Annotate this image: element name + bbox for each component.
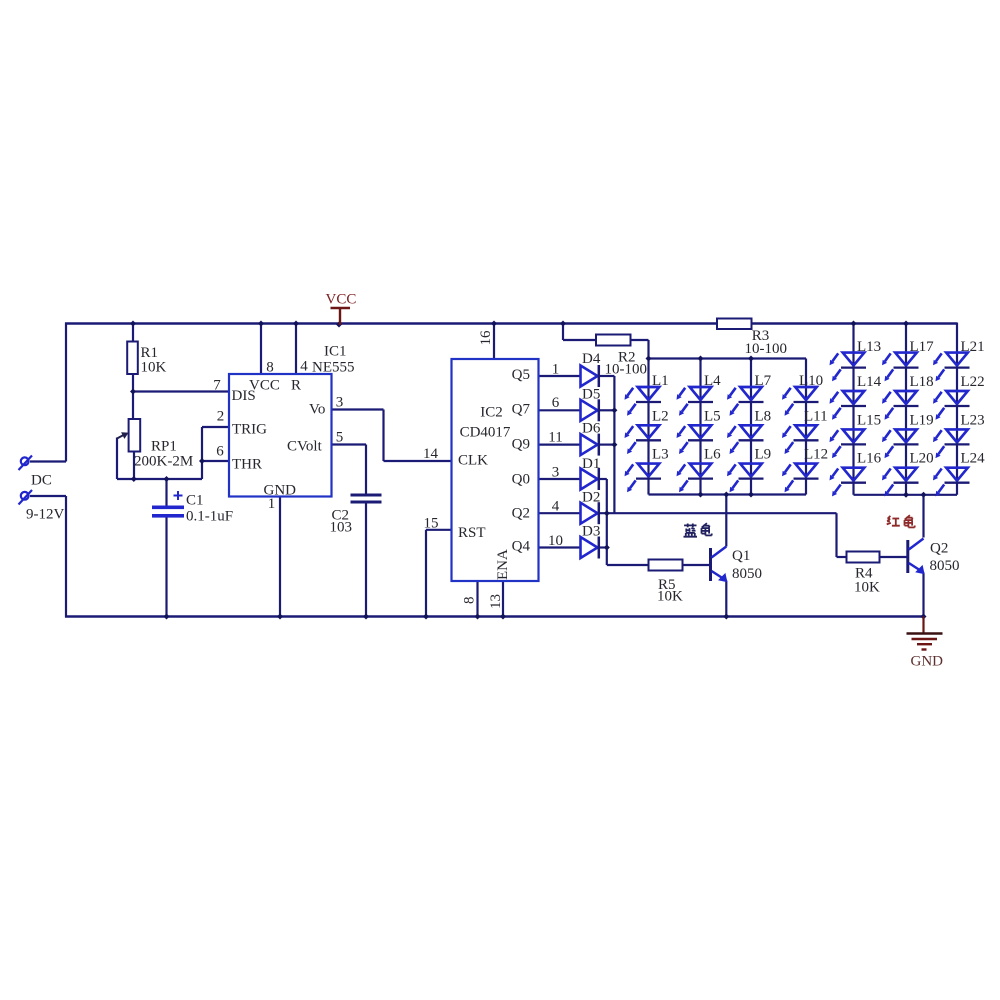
svg-text:L23: L23 bbox=[961, 412, 985, 428]
svg-text:15: 15 bbox=[424, 516, 439, 532]
svg-text:Q9: Q9 bbox=[512, 437, 530, 453]
svg-text:L3: L3 bbox=[652, 447, 669, 463]
svg-text:IC1: IC1 bbox=[324, 344, 347, 360]
svg-text:Q0: Q0 bbox=[512, 472, 530, 488]
svg-text:DIS: DIS bbox=[232, 388, 256, 404]
svg-text:3: 3 bbox=[552, 465, 560, 481]
svg-text:R: R bbox=[291, 378, 301, 394]
svg-text:1: 1 bbox=[268, 496, 276, 512]
svg-text:Q4: Q4 bbox=[512, 539, 531, 555]
svg-text:9-12V: 9-12V bbox=[26, 507, 64, 523]
svg-text:RP1: RP1 bbox=[151, 439, 177, 455]
svg-text:L15: L15 bbox=[857, 412, 881, 428]
svg-text:4: 4 bbox=[300, 359, 308, 375]
svg-text:L20: L20 bbox=[910, 451, 934, 467]
svg-text:D4: D4 bbox=[582, 351, 601, 367]
svg-text:ENA: ENA bbox=[495, 549, 511, 580]
svg-text:10K: 10K bbox=[657, 589, 683, 605]
svg-text:L6: L6 bbox=[704, 447, 721, 463]
svg-text:L8: L8 bbox=[755, 408, 772, 424]
svg-text:7: 7 bbox=[213, 378, 221, 394]
svg-text:L2: L2 bbox=[652, 408, 669, 424]
svg-text:L13: L13 bbox=[857, 339, 881, 355]
svg-text:5: 5 bbox=[336, 430, 344, 446]
svg-text:L7: L7 bbox=[755, 373, 772, 389]
svg-text:3: 3 bbox=[336, 395, 344, 411]
svg-text:Q2: Q2 bbox=[512, 506, 530, 522]
svg-text:D3: D3 bbox=[582, 524, 600, 540]
svg-text:L9: L9 bbox=[755, 447, 772, 463]
svg-text:13: 13 bbox=[488, 594, 504, 609]
svg-text:L10: L10 bbox=[799, 373, 823, 389]
svg-text:L18: L18 bbox=[910, 374, 934, 390]
svg-text:L17: L17 bbox=[910, 339, 935, 355]
svg-text:10K: 10K bbox=[141, 360, 167, 376]
svg-text:2: 2 bbox=[217, 409, 225, 425]
svg-text:6: 6 bbox=[552, 395, 560, 411]
svg-text:16: 16 bbox=[478, 330, 494, 346]
svg-text:L24: L24 bbox=[961, 451, 986, 467]
svg-text:8: 8 bbox=[266, 360, 274, 376]
svg-text:L1: L1 bbox=[652, 373, 669, 389]
svg-text:0.1-1uF: 0.1-1uF bbox=[186, 509, 233, 525]
svg-text:CLK: CLK bbox=[458, 453, 488, 469]
svg-text:L21: L21 bbox=[961, 339, 985, 355]
svg-text:1: 1 bbox=[552, 362, 560, 378]
svg-text:THR: THR bbox=[232, 457, 262, 473]
svg-text:8050: 8050 bbox=[732, 566, 762, 582]
svg-text:Q7: Q7 bbox=[512, 402, 531, 418]
svg-text:L11: L11 bbox=[804, 408, 828, 424]
svg-text:L5: L5 bbox=[704, 408, 721, 424]
svg-text:CVolt: CVolt bbox=[287, 439, 323, 455]
svg-text:GND: GND bbox=[911, 654, 944, 670]
svg-text:CD4017: CD4017 bbox=[460, 425, 511, 441]
svg-text:10: 10 bbox=[548, 533, 563, 549]
svg-text:10-100: 10-100 bbox=[745, 341, 788, 357]
svg-text:Vo: Vo bbox=[309, 402, 325, 418]
svg-text:Q1: Q1 bbox=[732, 548, 750, 564]
svg-text:Q5: Q5 bbox=[512, 367, 530, 383]
svg-text:TRIG: TRIG bbox=[232, 422, 267, 438]
svg-text:L4: L4 bbox=[704, 373, 721, 389]
svg-text:D1: D1 bbox=[582, 456, 600, 472]
svg-text:L19: L19 bbox=[910, 412, 934, 428]
svg-text:C1: C1 bbox=[186, 493, 204, 509]
svg-text:DC: DC bbox=[31, 473, 52, 489]
svg-text:10K: 10K bbox=[854, 580, 880, 596]
svg-text:6: 6 bbox=[216, 444, 224, 460]
svg-text:IC2: IC2 bbox=[480, 405, 503, 421]
svg-text:RST: RST bbox=[458, 525, 486, 541]
svg-text:L22: L22 bbox=[961, 374, 985, 390]
svg-text:D5: D5 bbox=[582, 387, 600, 403]
svg-text:200K-2M: 200K-2M bbox=[134, 454, 193, 470]
svg-text:VCC: VCC bbox=[326, 292, 357, 308]
svg-text:L14: L14 bbox=[857, 374, 882, 390]
svg-text:L16: L16 bbox=[857, 451, 882, 467]
svg-text:D6: D6 bbox=[582, 421, 601, 437]
svg-text:10-100: 10-100 bbox=[605, 362, 648, 378]
svg-text:14: 14 bbox=[423, 446, 439, 462]
svg-text:L12: L12 bbox=[804, 447, 828, 463]
svg-text:D2: D2 bbox=[582, 490, 600, 506]
svg-text:103: 103 bbox=[330, 520, 353, 536]
svg-text:8: 8 bbox=[462, 597, 478, 605]
svg-text:Q2: Q2 bbox=[930, 541, 948, 557]
svg-text:4: 4 bbox=[552, 499, 560, 515]
svg-text:11: 11 bbox=[548, 430, 562, 446]
svg-text:NE555: NE555 bbox=[312, 360, 355, 376]
svg-text:8050: 8050 bbox=[930, 558, 960, 574]
